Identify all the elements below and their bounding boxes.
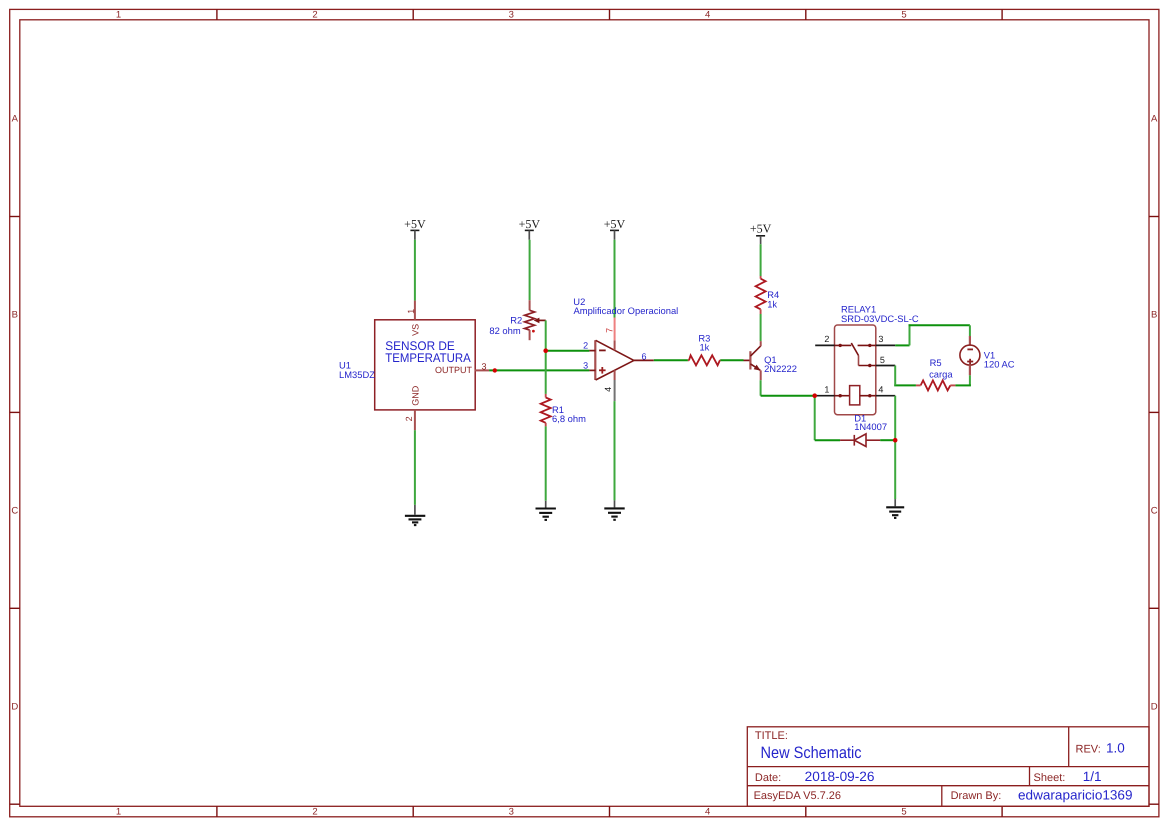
D1 labels — [854, 412, 887, 432]
U1 pin 3 — [475, 361, 489, 371]
wire +5V to R4 — [760, 244, 762, 276]
svg-text:3: 3 — [481, 361, 486, 371]
relay pin 5 — [876, 355, 895, 366]
U1 pin 1 — [406, 301, 416, 320]
transistor Q1 2N2222 — [744, 341, 761, 380]
power +5V (R2) — [519, 217, 541, 240]
svg-text:1N4007: 1N4007 — [854, 421, 887, 432]
op-amp U2 — [595, 340, 634, 380]
svg-text:VS: VS — [411, 324, 421, 336]
svg-text:4: 4 — [705, 806, 710, 817]
wire +5V to R2 — [529, 240, 531, 300]
svg-text:REV:: REV: — [1076, 743, 1101, 755]
svg-text:OUTPUT: OUTPUT — [435, 365, 473, 375]
node junction D1/pin4/gnd — [893, 438, 898, 443]
svg-text:TEMPERATURA: TEMPERATURA — [385, 351, 471, 365]
svg-text:D: D — [1151, 702, 1158, 713]
svg-text:4: 4 — [878, 384, 883, 394]
U1 pin 2 — [404, 410, 415, 430]
svg-text:5: 5 — [901, 806, 906, 817]
wire R2 wiper to node — [545, 320, 547, 350]
resistor R3 — [688, 355, 721, 365]
ground (relay) — [886, 499, 904, 518]
svg-text:TITLE:: TITLE: — [755, 730, 788, 742]
wire node down to D1 — [814, 396, 816, 441]
wire relay pin3 to V1 top — [895, 344, 909, 346]
source V1 — [960, 336, 980, 375]
ground (U1) — [405, 505, 425, 525]
resistor R4 — [756, 276, 766, 314]
svg-text:5: 5 — [880, 355, 885, 365]
relay pin 4 — [876, 384, 895, 395]
svg-text:1: 1 — [116, 10, 121, 21]
R5 labels — [929, 357, 953, 380]
resistor R5 — [916, 380, 956, 390]
svg-text:R5: R5 — [930, 357, 942, 368]
svg-text:Sheet:: Sheet: — [1034, 772, 1066, 784]
wire U1 pin2 to ground — [414, 430, 416, 505]
svg-text:5: 5 — [901, 10, 906, 21]
svg-text:2: 2 — [824, 334, 829, 344]
relay coil — [835, 386, 876, 405]
svg-text:1: 1 — [824, 384, 829, 394]
relay pin 1 — [815, 384, 835, 395]
wire V1 bottom to R5 — [969, 375, 971, 385]
svg-text:6: 6 — [641, 351, 646, 361]
svg-text:Amplificador Operacional: Amplificador Operacional — [574, 305, 679, 316]
svg-text:+5V: +5V — [519, 217, 541, 231]
svg-text:120 AC: 120 AC — [984, 359, 1015, 370]
wire U2 out to R3 — [654, 359, 688, 361]
ground (R1) — [536, 501, 556, 520]
svg-text:EasyEDA V5.7.26: EasyEDA V5.7.26 — [754, 790, 841, 802]
svg-text:3: 3 — [509, 10, 514, 21]
wire +5V to U1 pin1 — [414, 240, 416, 301]
svg-text:2: 2 — [312, 10, 317, 21]
sensor U1 LM35DZ body — [375, 320, 476, 410]
svg-text:C: C — [1151, 506, 1158, 517]
svg-text:SRD-03VDC-SL-C: SRD-03VDC-SL-C — [841, 313, 919, 324]
svg-text:Date:: Date: — [755, 772, 781, 784]
wire R3 to Q1 base — [720, 359, 743, 361]
relay switch — [835, 343, 876, 366]
RELAY1 labels — [841, 303, 919, 324]
svg-text:carga: carga — [929, 369, 953, 380]
title block — [747, 727, 1149, 807]
V1 labels — [984, 349, 1015, 369]
svg-text:3: 3 — [583, 360, 588, 370]
svg-text:C: C — [11, 506, 18, 517]
U2 pin 7 — [604, 318, 614, 341]
svg-text:A: A — [1151, 113, 1158, 124]
svg-text:GND: GND — [411, 385, 421, 406]
relay pin 3 — [876, 334, 895, 345]
svg-text:D: D — [11, 702, 18, 713]
svg-text:4: 4 — [705, 10, 710, 21]
wire Q1 emitter to relay pin1 node — [760, 380, 762, 396]
R3 labels — [698, 333, 710, 353]
svg-text:4: 4 — [603, 387, 613, 392]
svg-text:6,8 ohm: 6,8 ohm — [552, 413, 586, 424]
svg-text:New Schematic: New Schematic — [761, 744, 862, 762]
svg-text:3: 3 — [509, 806, 514, 817]
wire node to opamp pin2 — [546, 350, 590, 352]
svg-text:1/1: 1/1 — [1083, 769, 1102, 784]
svg-text:edwaraparicio1369: edwaraparicio1369 — [1018, 787, 1133, 802]
node junction emitter/relay/D1 — [812, 393, 817, 398]
node junction on U1 output — [493, 368, 497, 372]
diode D1 1N4007 — [840, 434, 880, 447]
svg-text:A: A — [12, 113, 19, 124]
svg-text:82 ohm: 82 ohm — [489, 325, 520, 336]
U1 designator label — [339, 360, 375, 381]
U2 pin 6 output stub — [634, 351, 654, 361]
svg-text:2: 2 — [583, 340, 588, 350]
svg-text:1: 1 — [116, 806, 121, 817]
U2 pin 3 stub — [583, 360, 595, 370]
wire U1 pin3 to opamp — [489, 369, 589, 371]
U2 pin 4 — [603, 380, 615, 401]
wire +5V to U2 pin7 — [614, 240, 616, 318]
R2 labels — [489, 315, 522, 336]
svg-text:+5V: +5V — [604, 217, 626, 231]
U1 symbol text — [385, 339, 471, 365]
svg-text:1k: 1k — [699, 342, 709, 353]
svg-text:3: 3 — [878, 334, 883, 344]
svg-text:1.0: 1.0 — [1106, 741, 1125, 756]
power +5V (R4) — [750, 222, 772, 245]
wire node down to R1 — [545, 351, 547, 394]
R1 labels — [552, 404, 586, 424]
svg-text:1k: 1k — [767, 299, 777, 310]
svg-text:+5V: +5V — [750, 222, 772, 236]
power +5V (U1) — [404, 217, 426, 240]
U2 pin 2 stub — [583, 340, 595, 350]
svg-text:1: 1 — [406, 309, 416, 314]
R2 wiper — [532, 318, 546, 333]
svg-text:B: B — [1151, 310, 1157, 321]
wire R5 to relay pin5 — [894, 384, 916, 386]
wire D1 to node — [880, 439, 895, 441]
svg-text:2: 2 — [312, 806, 317, 817]
wire R1 to ground — [545, 426, 547, 500]
wire relay pin4 to ground — [894, 396, 896, 499]
svg-text:Drawn By:: Drawn By: — [951, 790, 1002, 802]
svg-text:LM35DZ: LM35DZ — [339, 369, 375, 380]
wire Q1 collector to R4 — [760, 314, 762, 341]
svg-text:2N2222: 2N2222 — [764, 363, 797, 374]
resistor R1 — [541, 394, 551, 427]
relay RELAY1 body — [835, 325, 876, 415]
Q1 labels — [764, 354, 797, 374]
relay pin 2 — [815, 334, 834, 345]
svg-text:2018-09-26: 2018-09-26 — [805, 769, 875, 784]
wire U2 pin4 to ground — [614, 401, 616, 500]
ground (U2) — [604, 500, 624, 519]
U2 designator label — [573, 296, 678, 316]
node junction R2/R1/opamp — [543, 348, 548, 353]
R4 labels — [767, 289, 779, 310]
svg-text:2: 2 — [404, 416, 414, 421]
potentiometer R2 — [525, 300, 535, 340]
svg-text:7: 7 — [604, 328, 614, 333]
svg-text:B: B — [12, 310, 18, 321]
svg-text:+5V: +5V — [404, 217, 426, 231]
power +5V (U2) — [604, 217, 626, 240]
